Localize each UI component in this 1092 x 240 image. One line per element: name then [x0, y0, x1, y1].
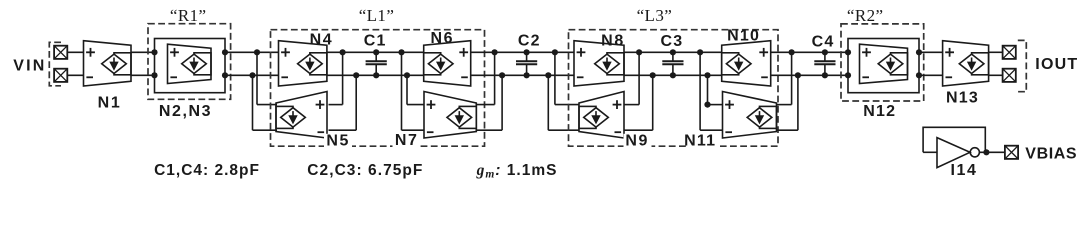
- svg-text:N13: N13: [946, 90, 979, 107]
- svg-text:VIN: VIN: [13, 58, 46, 75]
- wire top rail down to N9 output: [554, 52, 556, 104]
- junction dot: [789, 49, 795, 55]
- wire top rail down to N5 output +: [256, 52, 258, 104]
- R1 feedback wire rectangle: [155, 39, 226, 93]
- wire L3 internal top rail: [624, 51, 722, 53]
- inverter I14 feedback wire: [923, 127, 985, 152]
- transconductor N10: [722, 41, 771, 86]
- transconductor N1: [84, 41, 132, 86]
- wire R2 to N13 bottom: [919, 74, 943, 76]
- wire internal bottom rail down to N11 + input: [704, 72, 710, 78]
- dashed box L3: [569, 30, 779, 147]
- wire internal bottom rail down to N7 + input: [404, 72, 410, 78]
- svg-text:I14: I14: [950, 162, 977, 179]
- capacitor C2: [516, 49, 537, 78]
- wire N11 output bottom to main bottom rail: [777, 129, 798, 131]
- VBIAS terminal: [1005, 146, 1018, 159]
- wire N5 + input up to internal top rail: [329, 104, 343, 106]
- label N11: [686, 134, 720, 147]
- svg-text:N2,N3: N2,N3: [159, 103, 212, 120]
- junction dot: [340, 49, 346, 55]
- wire internal top rail down to N11 - input: [697, 49, 703, 55]
- wire L1 internal top rail: [327, 51, 424, 53]
- transconductor N8: [574, 41, 624, 86]
- wire I14 to VBIAS terminal: [979, 151, 1004, 153]
- transconductor N6: [424, 41, 471, 86]
- wire VIN- to N1: [67, 74, 83, 76]
- wire N9 - input up to internal bottom rail: [624, 129, 653, 131]
- svg-text:N12: N12: [863, 103, 896, 120]
- transconductor N13: [943, 41, 989, 86]
- wire R1 to L1 bottom rail: [225, 74, 279, 76]
- wire N7 output bottom to main bottom rail: [476, 129, 502, 131]
- wire L1 internal bottom rail: [327, 74, 424, 76]
- wire R2 to N13 top: [919, 51, 943, 53]
- junction dot: [353, 72, 359, 78]
- transconductor N12: [860, 44, 908, 83]
- svg-text:N11: N11: [684, 133, 716, 150]
- svg-text:“L1”: “L1”: [359, 6, 395, 25]
- capacitor C1: [366, 49, 387, 78]
- junction dot: [492, 49, 498, 55]
- svg-text:“L3”: “L3”: [637, 6, 673, 25]
- label N9: [624, 134, 652, 147]
- wire main top rail N10 to R2: [771, 51, 848, 53]
- svg-text:N4: N4: [310, 32, 334, 49]
- wire N13 out top to IOUT: [989, 51, 1003, 53]
- node dot top rail feed to N9: [552, 49, 558, 55]
- svg-text:N7: N7: [395, 132, 419, 149]
- node dot top rail feed to N5 output: [254, 49, 260, 55]
- transconductor N4: [279, 41, 327, 86]
- svg-text:N5: N5: [326, 132, 350, 149]
- dashed box R2: [841, 24, 924, 101]
- wire N9 + input up to internal top rail: [624, 104, 639, 106]
- dashed box R1: [148, 24, 231, 100]
- wire N13 out bottom to IOUT: [989, 74, 1003, 76]
- wire N7 output top to main top rail: [476, 104, 494, 106]
- wire N1 out top to R1: [131, 51, 155, 53]
- capacitor C3: [662, 49, 683, 78]
- R2 feedback wire rectangle: [848, 39, 919, 93]
- IOUT terminal top: [1003, 46, 1016, 59]
- junction dot: [795, 72, 801, 78]
- svg-text:“R2”: “R2”: [847, 6, 884, 25]
- svg-text:IOUT: IOUT: [1035, 56, 1078, 73]
- node dot bottom rail feed to N5 output: [249, 72, 255, 78]
- VIN terminal top: [54, 46, 67, 59]
- svg-text:VBIAS: VBIAS: [1025, 146, 1077, 163]
- junction dot: [636, 49, 642, 55]
- wire N1 out bottom to R1: [131, 74, 155, 76]
- wire I14 input: [923, 151, 937, 153]
- label N7: [393, 134, 421, 147]
- svg-text:C4: C4: [812, 34, 835, 51]
- svg-text:C2,C3: 6.75pF: C2,C3: 6.75pF: [307, 162, 423, 179]
- wire bottom rail down to N9 output: [547, 75, 549, 130]
- I14 output bubble: [970, 148, 979, 157]
- VIN dashed symbol bracket: [49, 42, 61, 86]
- IOUT dashed symbol bracket: [1018, 40, 1027, 91]
- wire N11 output top to main top rail: [777, 104, 792, 106]
- wire L3 internal bottom rail: [624, 74, 722, 76]
- wire main top rail N6 to N8: [471, 51, 574, 53]
- svg-text:C1: C1: [364, 32, 387, 49]
- svg-text:N10: N10: [727, 28, 760, 45]
- svg-text:N9: N9: [625, 133, 649, 150]
- capacitor C4: [814, 49, 835, 78]
- wire VIN+ to N1: [67, 51, 83, 53]
- label N5: [324, 134, 352, 147]
- transconductor N9: [579, 92, 624, 139]
- transconductor N7: [424, 92, 476, 139]
- svg-text:N8: N8: [601, 32, 625, 49]
- svg-text:C1,C4: 2.8pF: C1,C4: 2.8pF: [154, 162, 260, 179]
- dashed box L1: [271, 30, 485, 147]
- wire main bottom rail N10 to R2: [771, 74, 848, 76]
- svg-text:C3: C3: [660, 33, 683, 50]
- wire main bottom rail N6 to N8: [471, 74, 574, 76]
- svg-text:N1: N1: [98, 95, 122, 112]
- junction dots R2: [845, 49, 851, 55]
- svg-text:C2: C2: [518, 33, 541, 50]
- transconductor N11: [723, 92, 777, 139]
- junction dot: [650, 72, 656, 78]
- transconductor N2,N3: [168, 44, 212, 83]
- wire bottom rail down to N5 output -: [252, 75, 254, 130]
- node dot bottom rail feed to N9: [545, 72, 551, 78]
- IOUT terminal bottom: [1003, 69, 1016, 82]
- VIN terminal bottom: [54, 69, 67, 82]
- svg-text:gm: 1.1mS: gm: 1.1mS: [476, 162, 558, 181]
- svg-text:“R1”: “R1”: [170, 6, 207, 25]
- svg-text:N6: N6: [430, 30, 454, 47]
- wire R1 to L1 top rail: [225, 51, 279, 53]
- junction dot I14 output: [983, 149, 989, 155]
- wire N5 - input up to internal bottom rail: [329, 129, 357, 131]
- transconductor N5: [276, 92, 327, 139]
- junction dots R1: [151, 49, 157, 55]
- junction dot: [499, 72, 505, 78]
- inverter I14: [937, 138, 970, 168]
- junction dot at N11 + bend: [704, 102, 710, 108]
- wire internal top rail down to N7 - input: [398, 49, 404, 55]
